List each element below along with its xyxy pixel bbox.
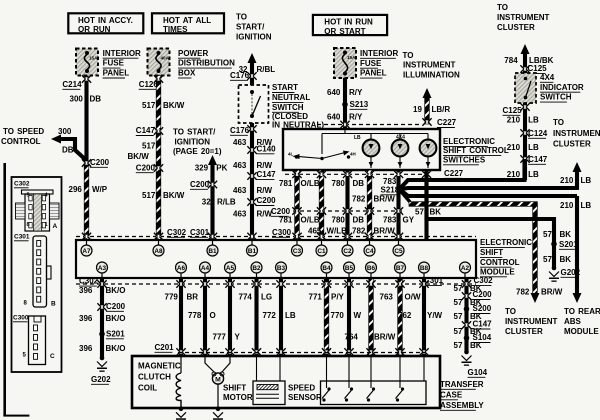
connector line C200 mid — [293, 210, 405, 212]
wire 465 W/LB to pin C1 — [319, 170, 324, 240]
svg-text:C2: C2 — [343, 248, 352, 255]
svg-text:57: 57 — [454, 312, 463, 321]
svg-text:MODULE: MODULE — [564, 327, 599, 336]
start neutral switch S1 — [239, 85, 269, 123]
svg-text:5: 5 — [27, 192, 30, 198]
svg-text:CLUSTER: CLUSTER — [553, 140, 591, 149]
svg-text:57: 57 — [454, 341, 463, 350]
svg-text:C140: C140 — [257, 144, 277, 153]
svg-text:A7: A7 — [82, 248, 91, 255]
svg-text:BK/O: BK/O — [106, 286, 126, 295]
wire 782 BR/W down to instrument cluster — [533, 204, 538, 294]
4x4 indicator switch S2 — [515, 73, 536, 103]
wire 19 LB/R — [425, 97, 430, 124]
ground below coil — [176, 407, 186, 420]
svg-text:R/W: R/W — [257, 161, 273, 170]
svg-text:PANEL: PANEL — [360, 69, 387, 78]
wire 762 Y/W — [422, 278, 426, 355]
module pin A8 — [153, 245, 164, 256]
power source box HOT IN ACCY OR RUN — [68, 13, 143, 33]
arrow 210 LB to instrument cluster — [573, 162, 582, 172]
svg-text:SWITCHES: SWITCHES — [443, 155, 486, 164]
svg-text:517: 517 — [142, 191, 156, 200]
svg-text:IGNITION: IGNITION — [236, 32, 272, 41]
splice S104 — [464, 335, 470, 341]
svg-text:Y/W: Y/W — [427, 311, 443, 320]
svg-text:4X4: 4X4 — [540, 73, 555, 82]
svg-text:LG: LG — [261, 292, 272, 301]
svg-text:R/Y: R/Y — [349, 88, 363, 97]
svg-text:C125: C125 — [503, 106, 523, 115]
wire branch to speed control — [57, 139, 87, 161]
svg-text:783: 783 — [383, 215, 397, 224]
svg-text:BK/O: BK/O — [106, 344, 126, 353]
svg-text:SHIFT: SHIFT — [223, 384, 246, 393]
connector C125 upper — [523, 67, 528, 70]
connector detail outer box — [12, 177, 62, 372]
connector C124 — [523, 131, 528, 134]
svg-text:1: 1 — [45, 222, 48, 228]
ground G202 right — [549, 266, 559, 282]
connector C227 at 640 wire — [343, 123, 348, 126]
svg-text:S201: S201 — [559, 240, 578, 249]
svg-text:A2: A2 — [461, 265, 470, 272]
svg-text:B: B — [51, 301, 56, 308]
connector C200 left chain — [100, 305, 105, 308]
svg-text:4L: 4L — [288, 152, 294, 157]
svg-text:762: 762 — [398, 311, 412, 320]
svg-text:B7: B7 — [396, 265, 405, 272]
module pin B2 — [251, 262, 262, 273]
svg-text:W/P: W/P — [92, 185, 108, 194]
svg-text:C227: C227 — [437, 118, 457, 127]
svg-text:SENSOR: SENSOR — [288, 393, 322, 402]
svg-text:DB: DB — [353, 179, 365, 188]
svg-text:C300: C300 — [13, 315, 29, 322]
svg-text:517: 517 — [142, 101, 156, 110]
svg-text:ILLUMINATION: ILLUMINATION — [403, 70, 460, 79]
svg-text:A5: A5 — [226, 265, 235, 272]
svg-text:BK/W: BK/W — [163, 191, 185, 200]
connector C200 col3 — [210, 183, 215, 186]
connector C176 lower — [250, 127, 255, 130]
wire 779 BR — [179, 278, 183, 355]
switch assembly internal feed wires — [322, 129, 428, 154]
svg-text:B6: B6 — [367, 265, 376, 272]
svg-text:IGNITION: IGNITION — [175, 138, 211, 147]
arrow to speed control — [51, 135, 61, 144]
svg-text:C214: C214 — [62, 80, 82, 89]
connector C147 col 4x4 — [523, 157, 528, 160]
svg-text:HOT AT ALL: HOT AT ALL — [163, 16, 211, 25]
arrow 782 BR/W to instrument cluster — [531, 293, 540, 303]
svg-text:TO: TO — [505, 307, 516, 316]
riser 210 LB up — [575, 167, 579, 190]
svg-text:B5: B5 — [345, 265, 354, 272]
svg-text:R/W: R/W — [257, 186, 273, 195]
svg-text:ELECTRONIC: ELECTRONIC — [480, 238, 532, 247]
C302 connector housing — [22, 190, 54, 194]
svg-text:DB: DB — [90, 94, 102, 103]
module pin C2 — [342, 245, 353, 256]
svg-text:771: 771 — [309, 292, 323, 301]
svg-text:781: 781 — [279, 215, 293, 224]
wire 781 O/LB to pin C3 — [295, 170, 300, 240]
svg-text:MOTOR: MOTOR — [223, 393, 253, 402]
svg-text:LB: LB — [354, 135, 361, 141]
wire 770 W — [347, 278, 351, 355]
svg-text:INSTRUMENT: INSTRUMENT — [505, 317, 558, 326]
svg-text:OR RUN: OR RUN — [78, 25, 111, 34]
connector line C201 — [178, 352, 425, 354]
svg-text:57: 57 — [454, 298, 463, 307]
fuse F2 power distribution box — [148, 49, 170, 76]
splice S218 — [397, 186, 403, 192]
svg-text:B1: B1 — [208, 248, 217, 255]
svg-text:779: 779 — [165, 292, 179, 301]
svg-text:777: 777 — [213, 332, 227, 341]
svg-text:C124: C124 — [528, 129, 548, 138]
svg-text:C147: C147 — [528, 155, 548, 164]
wire 57 BK from switch assembly — [424, 170, 428, 240]
svg-text:57: 57 — [454, 284, 463, 293]
svg-text:DISTRIBUTION: DISTRIBUTION — [178, 59, 235, 68]
wire 763 O/W — [398, 278, 403, 355]
svg-text:210: 210 — [560, 176, 574, 185]
svg-text:57: 57 — [454, 327, 463, 336]
svg-text:BK: BK — [470, 341, 482, 350]
ground G104 — [462, 350, 472, 366]
arrow 784 to instrument cluster — [521, 44, 530, 54]
svg-text:C201: C201 — [155, 343, 175, 352]
wire 783 GY to pin C5 — [396, 170, 400, 240]
switch contact at 371 — [372, 387, 375, 390]
connector line C227 bottom — [285, 173, 432, 175]
svg-text:BR/W: BR/W — [374, 332, 396, 341]
svg-text:ASSEMBLY: ASSEMBLY — [440, 401, 484, 410]
svg-text:FUSE: FUSE — [103, 59, 125, 68]
svg-text:LB: LB — [285, 311, 296, 320]
svg-text:M: M — [215, 376, 221, 383]
svg-text:S213: S213 — [350, 100, 369, 109]
svg-text:C300: C300 — [272, 228, 292, 237]
arrow 210 LB to rear ABS module — [573, 293, 582, 303]
module pin A3 — [97, 262, 108, 273]
transfer case assembly box — [132, 356, 440, 408]
svg-text:S218: S218 — [381, 185, 400, 194]
C301 connector housing — [33, 236, 47, 307]
svg-text:TO: TO — [497, 3, 508, 12]
svg-text:A6: A6 — [177, 265, 186, 272]
svg-text:8: 8 — [27, 222, 30, 228]
svg-text:C302: C302 — [167, 228, 187, 237]
svg-text:A3: A3 — [98, 265, 107, 272]
connector C200 col2 — [156, 166, 161, 169]
wire 772 LB — [279, 278, 283, 355]
ground below shift motor — [213, 407, 223, 420]
svg-text:MODULE: MODULE — [480, 267, 515, 276]
svg-text:463: 463 — [233, 161, 247, 170]
ground G202 left — [97, 356, 107, 372]
svg-text:C227: C227 — [444, 169, 464, 178]
svg-text:C301: C301 — [190, 228, 210, 237]
svg-text:396: 396 — [79, 314, 93, 323]
svg-text:TO REAR: TO REAR — [564, 307, 600, 316]
switch contact at 326.5 — [327, 387, 330, 390]
svg-text:G202: G202 — [91, 375, 111, 384]
svg-text:MAGNETIC: MAGNETIC — [138, 361, 181, 370]
svg-text:C301: C301 — [14, 234, 30, 241]
svg-text:CLUTCH: CLUTCH — [138, 372, 171, 381]
svg-text:784: 784 — [504, 56, 518, 65]
svg-text:640: 640 — [327, 112, 341, 121]
connector C125 lower — [523, 105, 528, 108]
svg-text:TO: TO — [236, 12, 247, 21]
svg-text:57: 57 — [543, 255, 552, 264]
wire 774 LG — [254, 278, 258, 355]
connector C227 upper — [425, 120, 430, 123]
svg-text:(PAGE 20=1): (PAGE 20=1) — [173, 147, 222, 156]
svg-text:57: 57 — [543, 230, 552, 239]
fan wire L2 to instrument cluster — [401, 188, 577, 189]
svg-text:210: 210 — [507, 170, 521, 179]
svg-text:329: 329 — [195, 163, 209, 172]
svg-text:57: 57 — [415, 207, 424, 216]
svg-text:LB: LB — [528, 143, 539, 152]
speed sensor — [256, 356, 258, 381]
svg-text:R/BL: R/BL — [257, 65, 276, 74]
power source box HOT IN RUN OR START — [313, 15, 387, 35]
svg-text:START: START — [272, 83, 298, 92]
svg-text:CASE: CASE — [440, 390, 463, 399]
wire 300 DB col1 — [84, 76, 88, 164]
svg-text:C302: C302 — [79, 277, 99, 286]
svg-text:TO START/: TO START/ — [173, 128, 216, 137]
connector line C227 top — [317, 124, 421, 126]
svg-text:CONTROL: CONTROL — [1, 137, 41, 146]
svg-text:BK/W: BK/W — [163, 101, 185, 110]
splice S213 — [342, 102, 348, 108]
svg-text:296: 296 — [69, 185, 83, 194]
svg-text:210: 210 — [507, 116, 521, 125]
svg-text:R/LB: R/LB — [217, 197, 236, 206]
wire 784 LB/BK — [523, 53, 527, 73]
svg-text:LB/R: LB/R — [432, 105, 451, 114]
svg-text:BK: BK — [560, 230, 572, 239]
svg-text:PK: PK — [216, 163, 227, 172]
svg-text:O/LB: O/LB — [301, 179, 320, 188]
svg-text:A4: A4 — [201, 265, 210, 272]
connector C200 col1 — [84, 161, 89, 164]
connector C200 right chain — [464, 294, 469, 297]
module pin A4 — [200, 262, 211, 273]
module pin B4 — [321, 262, 332, 273]
svg-text:BK/O: BK/O — [106, 314, 126, 323]
svg-text:C125: C125 — [528, 64, 548, 73]
wire 210 LB corner up to C147 — [522, 159, 526, 182]
svg-text:O/W: O/W — [405, 292, 421, 301]
svg-text:B2: B2 — [252, 265, 261, 272]
svg-text:LB: LB — [581, 201, 592, 210]
svg-text:INDICATOR: INDICATOR — [540, 83, 584, 92]
svg-text:C200: C200 — [90, 158, 110, 167]
connector C140 — [250, 148, 255, 151]
magnetic clutch coil L1 — [180, 356, 182, 373]
fan wire L3 to rear ABS — [401, 191, 577, 197]
svg-text:B4: B4 — [322, 265, 331, 272]
svg-text:C4: C4 — [365, 248, 374, 255]
connector C200 col4 — [250, 200, 255, 203]
svg-text:763: 763 — [380, 292, 394, 301]
svg-text:DB: DB — [353, 215, 365, 224]
C300 connector housing — [29, 316, 46, 365]
svg-text:LB: LB — [528, 116, 539, 125]
svg-text:O/LB: O/LB — [301, 215, 320, 224]
svg-text:C: C — [50, 353, 55, 360]
svg-text:C200: C200 — [136, 163, 156, 172]
svg-text:BR/W: BR/W — [374, 194, 396, 203]
wire 210 LB below 4x4 switch — [523, 103, 527, 180]
svg-text:Y: Y — [235, 332, 241, 341]
svg-text:C200: C200 — [257, 196, 277, 205]
svg-text:780: 780 — [332, 179, 346, 188]
switch contact at 349 — [350, 387, 353, 390]
mode switch bank — [321, 381, 427, 405]
svg-text:780: 780 — [332, 215, 346, 224]
svg-text:INTERIOR: INTERIOR — [360, 49, 398, 58]
svg-text:C5: C5 — [394, 248, 403, 255]
svg-text:C302: C302 — [14, 181, 30, 188]
wire 396 BK/O pin A3 to G202 — [100, 278, 104, 358]
svg-text:NEUTRAL: NEUTRAL — [272, 93, 310, 102]
svg-text:210: 210 — [560, 201, 574, 210]
svg-text:PANEL: PANEL — [103, 69, 130, 78]
svg-text:463: 463 — [233, 186, 247, 195]
electronic shift control module box — [76, 240, 476, 278]
svg-text:SWITCH: SWITCH — [540, 93, 572, 102]
svg-text:G104: G104 — [468, 368, 488, 377]
svg-text:(CLOSED: (CLOSED — [272, 112, 308, 121]
svg-text:TRANSFER: TRANSFER — [440, 380, 484, 389]
svg-text:4X4: 4X4 — [396, 135, 405, 141]
svg-text:POWER: POWER — [178, 49, 208, 58]
svg-text:CLUSTER: CLUSTER — [497, 23, 535, 32]
arrow to instrument illumination — [423, 88, 432, 98]
svg-text:FUSE: FUSE — [360, 59, 382, 68]
svg-text:HOT IN RUN: HOT IN RUN — [324, 18, 373, 27]
module pin C4 — [364, 245, 375, 256]
svg-text:TO SPEED: TO SPEED — [3, 127, 44, 136]
svg-text:463: 463 — [233, 209, 247, 218]
wire 57 BK pin A2 to G104 — [464, 278, 468, 352]
module pin C3 — [292, 245, 303, 256]
splice S201 left — [99, 331, 105, 337]
svg-text:CONTROL: CONTROL — [480, 258, 520, 267]
svg-text:DB: DB — [62, 145, 74, 154]
connector line C302/C301/C300 above module — [76, 236, 476, 238]
power source box HOT AT ALL TIMES — [152, 13, 224, 33]
connector C214 — [84, 77, 89, 80]
svg-text:C147: C147 — [136, 126, 156, 135]
wire 640 R/Y to switch assembly — [343, 78, 347, 129]
wire 771 P/Y — [324, 278, 329, 355]
svg-text:C176: C176 — [230, 71, 250, 80]
svg-text:C147: C147 — [257, 170, 277, 179]
connector C176 upper — [250, 74, 255, 77]
splice S200 — [464, 306, 470, 312]
svg-text:774: 774 — [239, 292, 253, 301]
svg-text:LB: LB — [528, 170, 539, 179]
arrow to start/ignition page 20-1 — [208, 155, 217, 165]
svg-text:772: 772 — [263, 311, 277, 320]
svg-text:BR/W: BR/W — [541, 287, 563, 296]
svg-text:463: 463 — [233, 138, 247, 147]
module pin B3 — [276, 262, 287, 273]
module pin C1 — [316, 245, 327, 256]
module pin C5 — [393, 245, 404, 256]
svg-text:COIL: COIL — [138, 383, 157, 392]
module pin B1 — [207, 245, 218, 256]
svg-text:TO: TO — [403, 51, 414, 60]
svg-text:C3: C3 — [293, 248, 302, 255]
module pin B8 — [419, 262, 430, 273]
riser 210 LB down to rear ABS — [575, 196, 579, 294]
svg-text:CLUSTER: CLUSTER — [505, 327, 543, 336]
svg-text:BR: BR — [187, 292, 199, 301]
svg-text:ABS: ABS — [564, 317, 582, 326]
wire 782 BR/W to pin C4 — [367, 170, 372, 240]
svg-text:GY: GY — [403, 215, 415, 224]
svg-text:ELECTRONIC: ELECTRONIC — [443, 137, 495, 146]
svg-text:A8: A8 — [154, 248, 163, 255]
svg-text:300: 300 — [70, 94, 84, 103]
svg-text:BK: BK — [560, 255, 572, 264]
svg-text:517: 517 — [142, 142, 156, 151]
wire 296 W/P col1 to pin A7 — [84, 163, 89, 240]
svg-text:S201: S201 — [106, 329, 125, 338]
svg-text:G202: G202 — [561, 268, 581, 277]
svg-text:OR START: OR START — [324, 27, 365, 36]
svg-text:782: 782 — [352, 226, 366, 235]
lamp 4X4 — [392, 140, 409, 157]
svg-text:300: 300 — [58, 127, 72, 136]
svg-text:BK: BK — [430, 207, 442, 216]
module pin B5 — [344, 262, 355, 273]
wire 780 DB to pin C2 — [345, 170, 349, 240]
svg-text:TO: TO — [553, 118, 564, 127]
splice S201 right — [551, 241, 557, 247]
svg-text:465: 465 — [308, 226, 322, 235]
arrow to start/ignition col4 — [248, 53, 257, 63]
svg-text:A: A — [53, 223, 58, 230]
wire 764 BR/W — [369, 278, 374, 355]
module pin B7 — [395, 262, 406, 273]
svg-text:O: O — [210, 311, 216, 320]
svg-text:P/Y: P/Y — [331, 292, 345, 301]
svg-text:15A: 15A — [89, 56, 98, 61]
svg-text:LB: LB — [581, 176, 592, 185]
svg-text:SPEED: SPEED — [288, 384, 315, 393]
svg-text:770: 770 — [331, 311, 345, 320]
shift motor M1 — [205, 356, 230, 373]
svg-text:INSTRUMENT: INSTRUMENT — [497, 13, 550, 22]
svg-text:INTERIOR: INTERIOR — [103, 49, 141, 58]
svg-text:B8: B8 — [420, 265, 429, 272]
svg-text:40A: 40A — [161, 56, 170, 61]
lamp — [420, 140, 437, 157]
rotary mode selector — [295, 155, 298, 158]
connector C147 col2 — [156, 129, 161, 132]
